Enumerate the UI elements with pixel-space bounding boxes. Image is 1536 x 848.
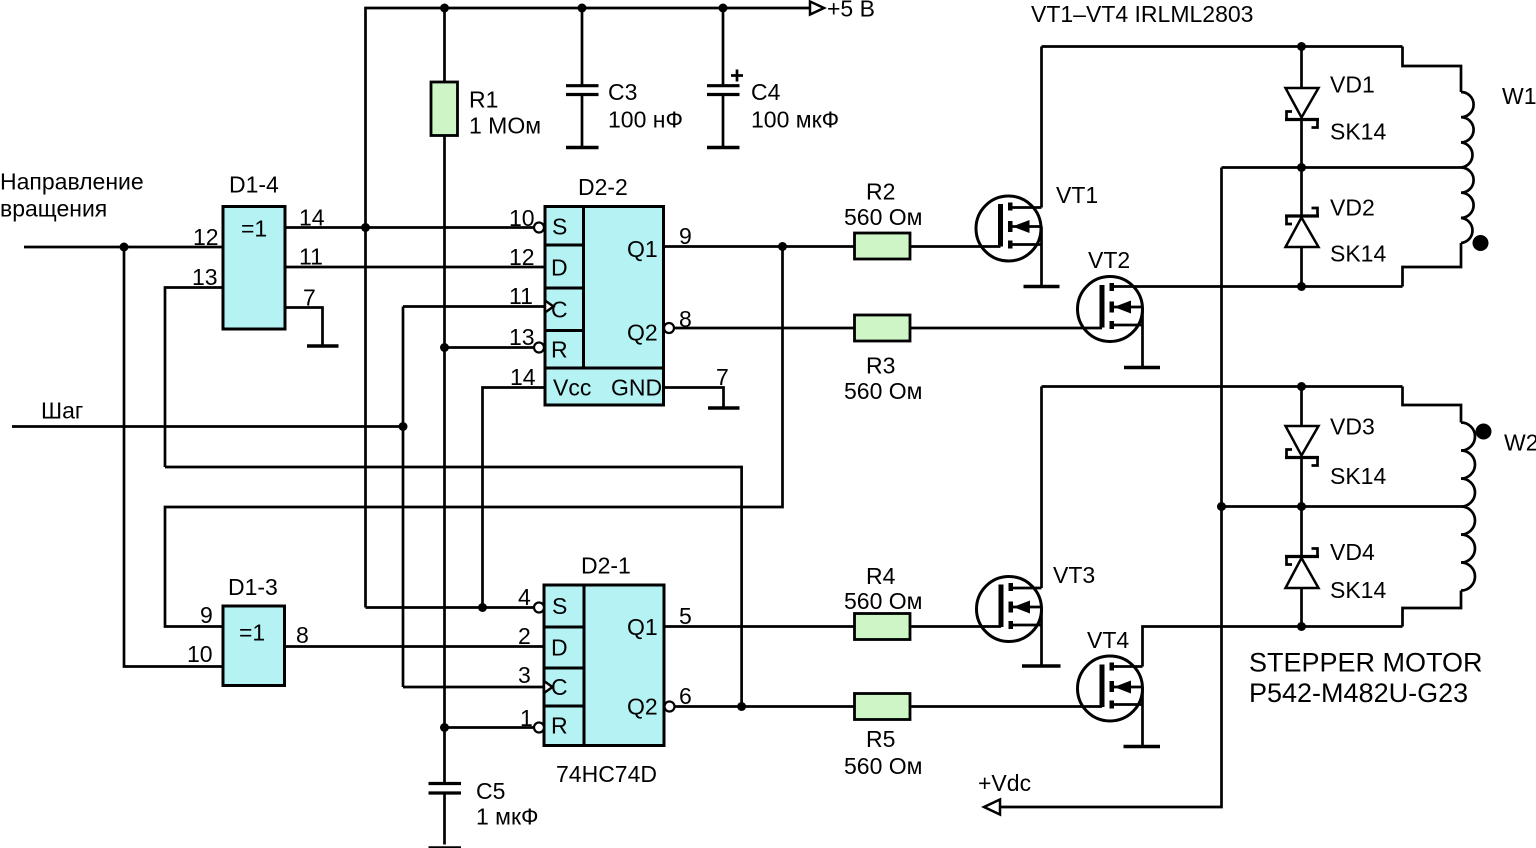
wire VT2 drain to W1 [1113,285,1403,288]
svg-text:100 нФ: 100 нФ [608,107,683,133]
ground C5 [429,846,462,848]
svg-text:SK14: SK14 [1330,241,1386,267]
bubble D2-2 Q2 [664,323,674,333]
junction VD2 bottom [1297,282,1306,291]
wire D2-1 Q2 output [675,705,855,708]
svg-text:560 Ом: 560 Ом [844,753,922,779]
wire D2-2 GND pin7 [664,388,724,407]
svg-text:1 МОм: 1 МОм [469,113,541,139]
wire direction input [24,246,223,249]
wire VT2 source [1141,307,1144,366]
bubble D2-1 S [534,603,544,613]
wire D1-4 pin7 to ground [285,308,323,346]
svg-text:9: 9 [679,223,692,249]
svg-text:14: 14 [510,364,536,390]
wire W2 centre tap [1222,505,1462,508]
ground VT1 [1024,285,1060,289]
svg-text:7: 7 [716,364,729,390]
ground C4 [707,146,740,150]
ground VT2 [1124,366,1160,370]
wire R3 to VT2 gate [910,327,1102,330]
+Vdc arrow [984,800,1000,815]
wire R5 to VT4 gate [910,705,1102,708]
resistor R3 [855,315,911,341]
svg-text:560 Ом: 560 Ом [844,204,922,230]
svg-text:12: 12 [509,244,535,270]
svg-text:Q2: Q2 [627,320,658,346]
wire D2-2 C input [403,305,545,308]
svg-text:1 мкФ: 1 мкФ [476,804,539,830]
wire W1 centre tap [1222,166,1462,169]
flip-flop D2-1 [544,585,664,746]
svg-text:13: 13 [192,264,218,290]
junction VD4 bottom [1297,622,1306,631]
svg-text:SK14: SK14 [1330,119,1386,145]
svg-text:74HC74D: 74HC74D [556,761,657,787]
svg-text:D1-4: D1-4 [229,172,279,198]
junction VD1-VD2 [1297,163,1306,172]
svg-text:VD2: VD2 [1330,195,1375,221]
svg-text:VT1–VT4 IRLML2803: VT1–VT4 IRLML2803 [1031,1,1253,27]
capacitor C3 [581,8,584,85]
svg-text:S: S [552,593,567,619]
svg-text:GND: GND [611,375,662,401]
junction Vcc-S net [478,603,487,612]
wire direction to D1-3 pin10 [124,247,223,667]
wire D2-2 Q1 output [664,245,855,248]
diode VD4 [1300,507,1303,556]
junction +5V to pin14 [361,223,370,232]
svg-text:+Vdc: +Vdc [978,770,1031,796]
svg-text:=1: =1 [241,216,267,242]
svg-text:4: 4 [518,584,531,610]
junction reset net D2-1 [440,723,449,732]
svg-text:VT1: VT1 [1056,182,1098,208]
wire feedback Q2 to pin13 [165,467,742,707]
svg-text:W1: W1 [1502,83,1536,109]
wire VT3 drain to bus [1040,387,1043,589]
wire D2-1 R input [445,726,535,729]
svg-text:9: 9 [200,602,213,628]
XOR gate D1-3 [223,606,285,686]
svg-text:Q1: Q1 [627,236,658,262]
winding W1 [1403,47,1462,93]
svg-text:2: 2 [518,623,531,649]
svg-text:VT3: VT3 [1053,562,1095,588]
ground VT4 [1124,745,1161,749]
svg-text:C5: C5 [476,778,505,804]
svg-text:SK14: SK14 [1330,577,1386,603]
svg-text:11: 11 [299,244,323,270]
ground VT3 [1022,664,1061,668]
junction rail-R1 [440,4,449,13]
svg-text:Q2: Q2 [627,694,658,720]
junction Q1 net [778,242,787,251]
bubble D2-1 R [534,723,544,733]
capacitor C4 [722,8,725,85]
wire D2-2 R input [445,346,535,349]
svg-text:Q1: Q1 [627,614,658,640]
resistor R4 [855,614,911,640]
svg-text:R4: R4 [866,563,896,589]
svg-text:D: D [551,255,568,281]
clock mark D2-2 [545,301,554,313]
wire R2 to VT1 gate [910,245,1001,248]
svg-text:VD4: VD4 [1330,539,1375,565]
junction reset net D2-2 [440,343,449,352]
wire VT1 drain to bus [1040,47,1043,208]
wire VT4 source [1141,687,1144,745]
wire D2-1 C input [403,686,544,689]
svg-text:12: 12 [193,224,219,250]
svg-text:VD1: VD1 [1330,72,1375,98]
svg-text:W2: W2 [1504,430,1536,456]
svg-text:C4: C4 [751,79,781,105]
svg-text:D2-1: D2-1 [581,553,631,579]
svg-text:D: D [551,635,568,661]
transistor VT2 [1078,277,1143,342]
winding W2 [1403,387,1462,423]
bubble D2-1 Q2 [665,702,675,712]
wire D2-1 S input from +5V [366,606,535,609]
wire step input [12,425,403,428]
svg-text:R5: R5 [866,726,895,752]
svg-text:R1: R1 [469,87,498,113]
ground D2-2 [708,406,740,410]
svg-text:Шаг: Шаг [41,398,83,424]
transistor VT3 [977,577,1042,642]
svg-text:11: 11 [509,283,533,309]
svg-text:560 Ом: 560 Ом [844,378,922,404]
svg-text:VD3: VD3 [1330,414,1375,440]
wire VT4 drain to W2 [1143,627,1403,667]
svg-text:VT4: VT4 [1087,627,1129,653]
wire D1-4 pin11 to D2-2 D [285,266,545,269]
svg-text:R: R [551,337,568,363]
diode VD2 [1300,168,1303,215]
svg-text:10: 10 [187,641,213,667]
svg-text:Vcc: Vcc [553,375,591,401]
svg-text:Направление: Направление [0,169,144,195]
bubble D2-2 R [534,343,544,353]
wire upper drain bus [1042,45,1403,48]
svg-text:C: C [551,297,568,323]
svg-text:STEPPER MOTOR: STEPPER MOTOR [1249,648,1483,678]
wire D1-3 pin8 to D2-1 D [285,645,545,648]
svg-text:6: 6 [679,683,692,709]
diode VD1 [1300,47,1303,89]
svg-text:10: 10 [509,205,535,231]
W1 polarity dot [1473,235,1489,251]
transistor VT4 [1078,656,1143,721]
svg-text:3: 3 [518,662,531,688]
wire D2-1 Q1 output [664,625,855,628]
ground C3 [566,146,599,150]
svg-text:+5 В: +5 В [827,0,875,22]
junction rail-C4 [719,4,728,13]
svg-text:8: 8 [296,622,309,648]
wire D1-4 pin13 [165,288,223,468]
wire D2-2 Vcc pin14 [483,388,546,608]
resistor R5 [855,694,911,720]
junction rail-C3 [578,4,587,13]
svg-text:SK14: SK14 [1330,463,1386,489]
capacitor C5 [429,782,462,785]
junction VD3 top [1297,382,1306,391]
svg-text:D2-2: D2-2 [578,174,628,200]
svg-text:5: 5 [679,603,692,629]
svg-text:=1: =1 [239,620,265,646]
clock mark D2-1 [544,681,553,693]
wire R4 to VT3 gate [910,625,1001,628]
wire VT1 source [1040,227,1043,286]
wire lower drain bus [1042,385,1403,388]
flip-flop D2-2 [545,207,664,369]
svg-text:R3: R3 [866,353,895,379]
svg-text:13: 13 [509,324,535,350]
wire Q1 feedback to D1-3 pin9 [165,247,783,627]
resistor R1 [443,8,446,82]
svg-text:D1-3: D1-3 [228,574,278,600]
junction tap to +Vdc [1217,502,1226,511]
+5V arrow [810,2,824,15]
wire clock net [402,307,405,688]
bubble D2-2 S [534,223,544,233]
diode VD3 [1300,387,1303,427]
svg-text:VT2: VT2 [1088,247,1130,273]
svg-text:R2: R2 [866,179,895,205]
+5V power rail [366,8,811,608]
junction VD1 top [1297,42,1306,51]
junction Q2 feedback [737,702,746,711]
ground D1-4 [307,344,339,348]
svg-text:C3: C3 [608,79,637,105]
svg-text:R: R [551,713,568,739]
svg-text:S: S [552,214,567,240]
junction VD3-VD4 [1297,502,1306,511]
transistor VT1 [976,196,1041,261]
svg-text:560 Ом: 560 Ом [844,588,922,614]
XOR gate D1-4 [223,207,285,330]
svg-text:100 мкФ: 100 мкФ [751,107,839,133]
W2 polarity dot [1476,424,1492,440]
wire D1-4 pin14 Vcc / D2-2 S [285,226,534,229]
resistor R2 [855,233,911,259]
wire VT3 source [1040,607,1043,665]
svg-text:P542-M482U-G23: P542-M482U-G23 [1249,678,1468,708]
svg-text:вращения: вращения [0,196,107,222]
wire D2-2 Q2 output [674,327,855,330]
wire +Vdc feed [1000,168,1222,808]
